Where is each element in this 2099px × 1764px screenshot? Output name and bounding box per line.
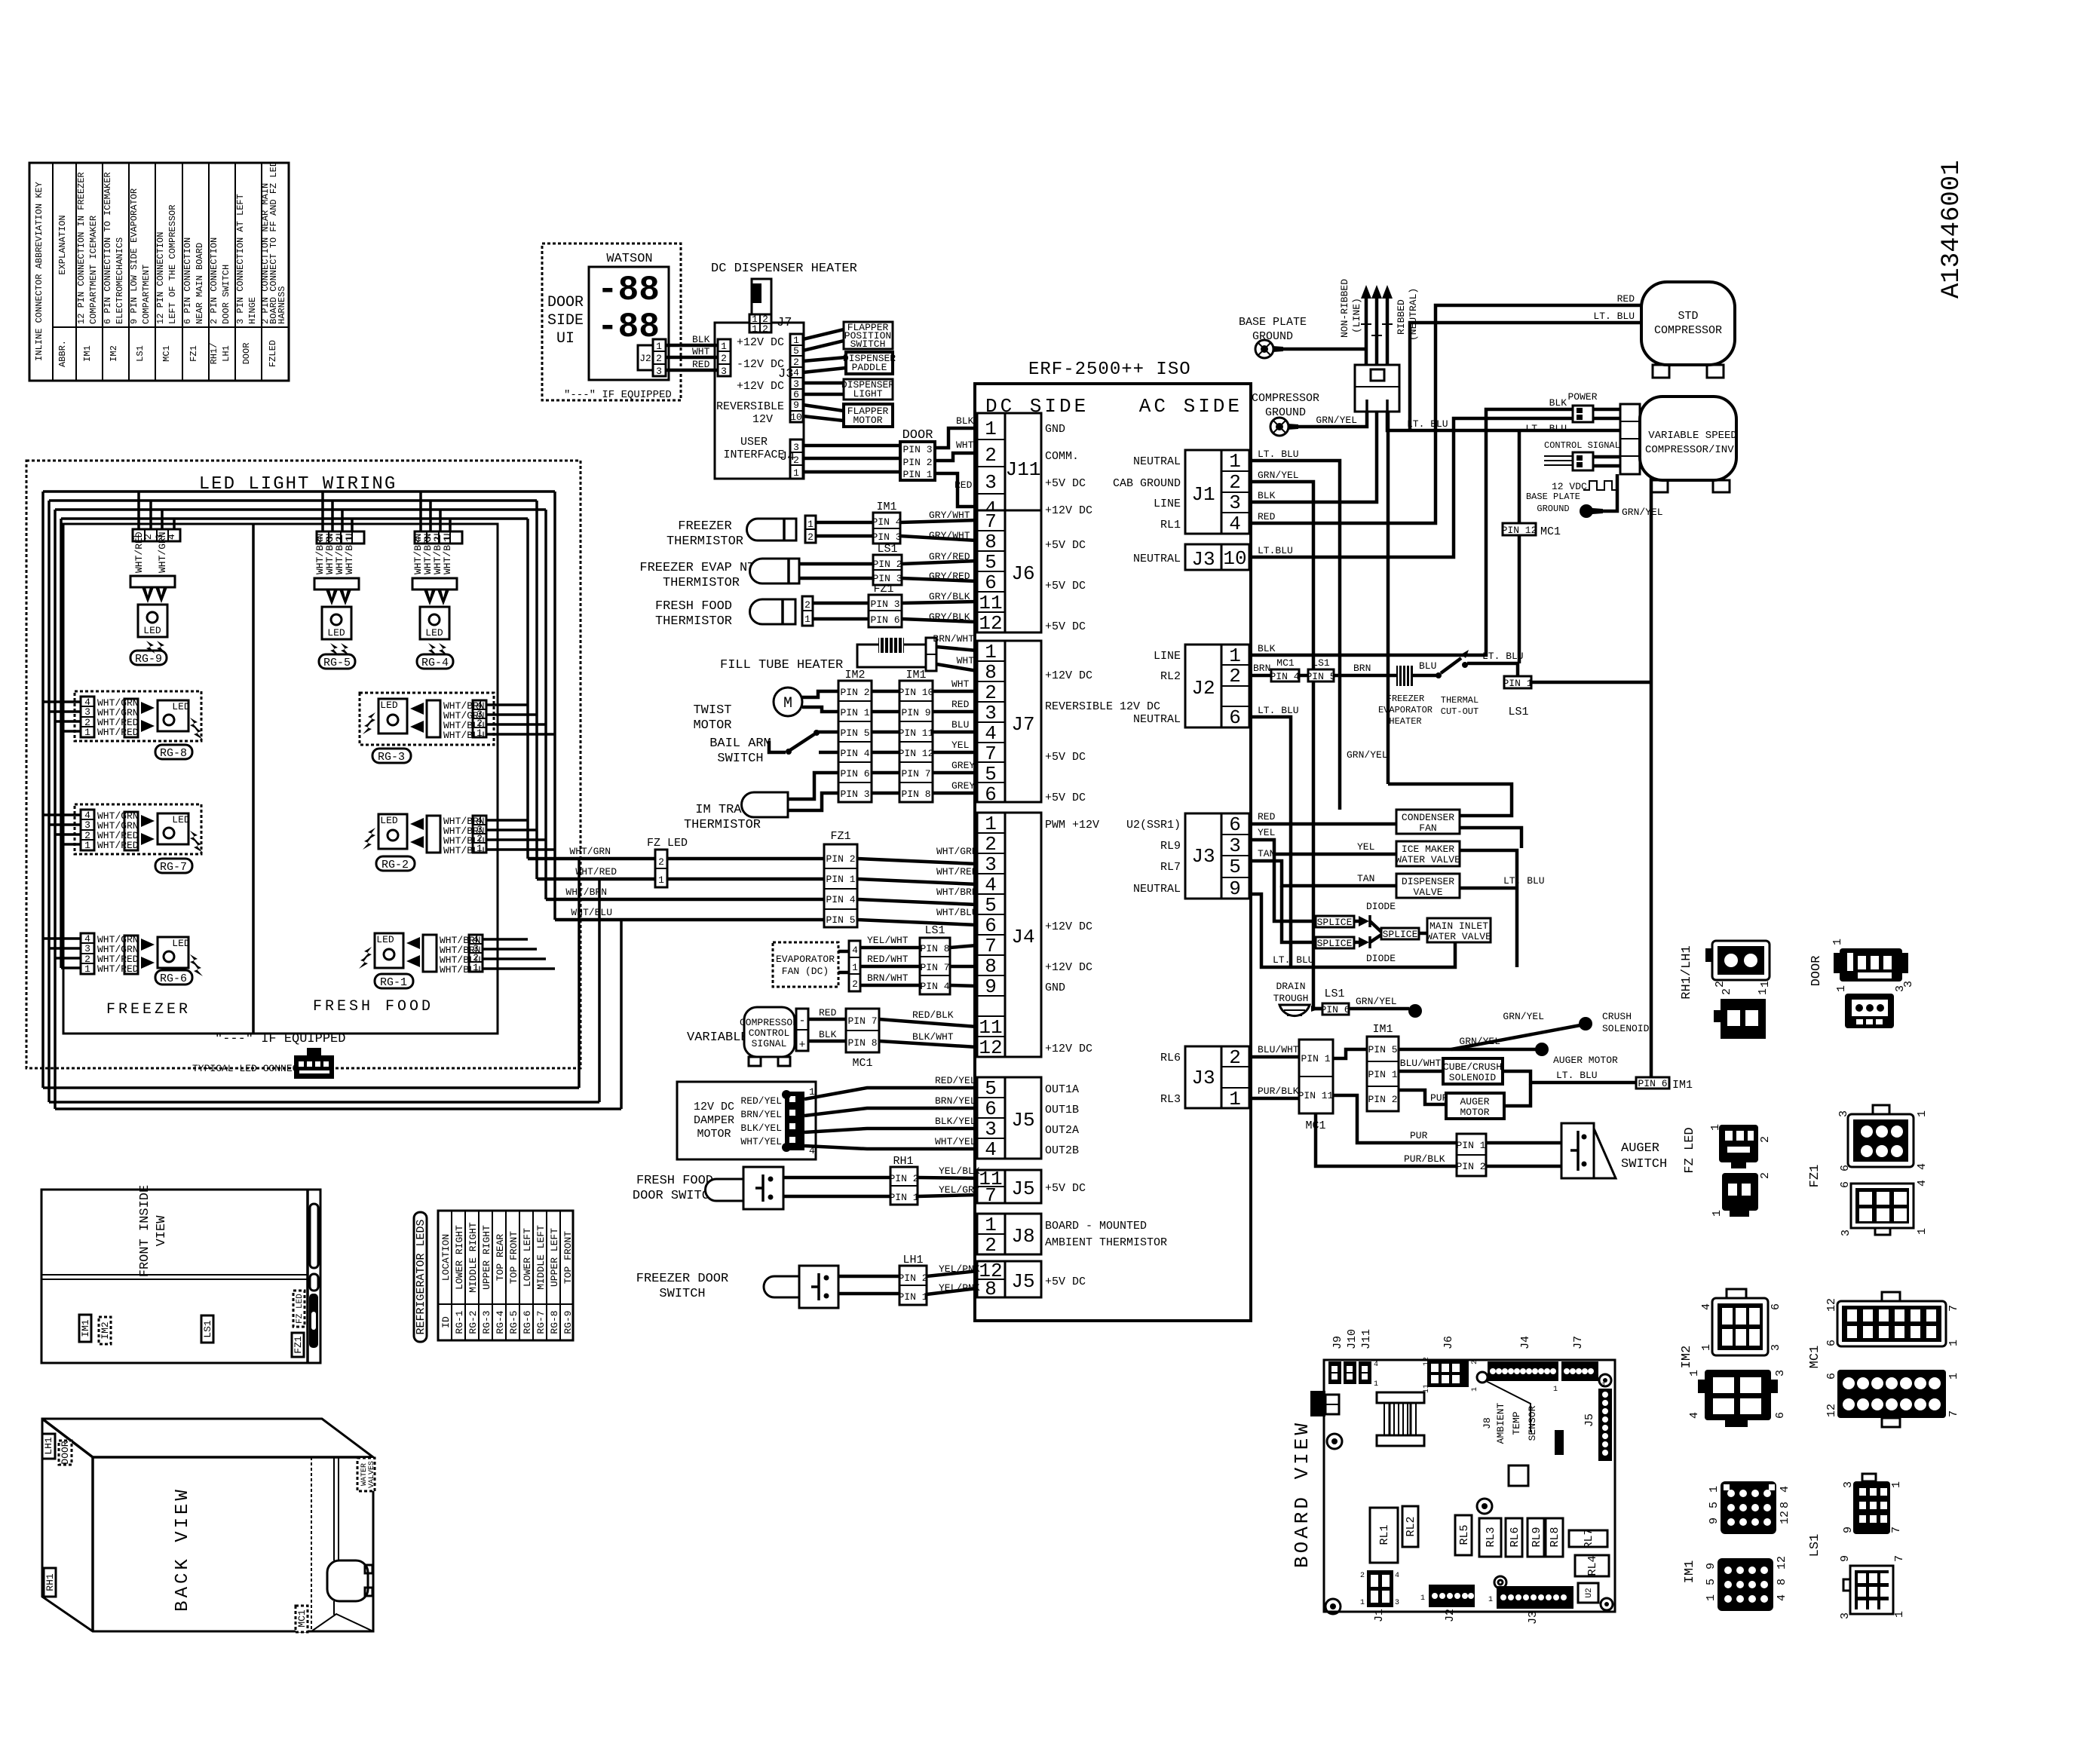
svg-text:PIN 12: PIN 12: [899, 748, 934, 759]
twist motor: [693, 688, 838, 733]
svg-text:1: 1: [1890, 1481, 1903, 1488]
svg-text:3 PIN CONNECTION AT LEFT: 3 PIN CONNECTION AT LEFT: [235, 194, 246, 324]
svg-text:PIN 1: PIN 1: [1503, 678, 1532, 689]
svg-text:J5: J5: [1011, 1178, 1034, 1200]
svg-text:7: 7: [985, 935, 997, 957]
svg-text:RED: RED: [1617, 293, 1635, 305]
svg-text:RED: RED: [692, 359, 710, 370]
svg-text:1: 1: [1488, 1596, 1493, 1604]
svg-text:BLK: BLK: [956, 415, 974, 427]
svg-text:YEL/PNK: YEL/PNK: [939, 1263, 980, 1275]
inline connector IM1 pins 4-3: [872, 501, 901, 544]
svg-text:1: 1: [1711, 1210, 1724, 1217]
svg-text:FZ1: FZ1: [1808, 1165, 1822, 1188]
svg-text:FRONT INSIDE: FRONT INSIDE: [138, 1185, 152, 1277]
svg-text:J6: J6: [1011, 562, 1034, 585]
svg-text:SWITCH: SWITCH: [717, 752, 763, 766]
svg-text:12: 12: [1779, 1511, 1791, 1524]
svg-text:2: 2: [985, 444, 997, 467]
svg-text:4: 4: [985, 1138, 997, 1161]
svg-text:BLK: BLK: [1258, 490, 1276, 501]
svg-text:PIN 2: PIN 2: [889, 1173, 918, 1184]
svg-text:12: 12: [1825, 1298, 1838, 1312]
connector J3 pin 10: [1133, 544, 1249, 571]
svg-text:5: 5: [1708, 1502, 1721, 1508]
svg-text:FREEZER: FREEZER: [106, 1001, 191, 1018]
svg-text:FRESH FOOD: FRESH FOOD: [313, 998, 434, 1015]
svg-text:RG-1: RG-1: [454, 1310, 465, 1334]
svg-text:TROUGH: TROUGH: [1273, 993, 1309, 1004]
connector view FZ1: [1808, 1105, 1929, 1236]
svg-text:POWER: POWER: [1567, 391, 1597, 403]
svg-text:12V: 12V: [752, 413, 773, 426]
svg-text:6: 6: [1839, 1165, 1852, 1171]
svg-text:PIN 6: PIN 6: [840, 768, 869, 779]
svg-text:GND: GND: [1045, 982, 1065, 994]
svg-text:J2: J2: [1191, 677, 1215, 700]
svg-text:BLK: BLK: [1549, 397, 1567, 409]
wires damper motor to J5: [804, 1075, 977, 1149]
svg-text:PIN 11: PIN 11: [1298, 1090, 1334, 1101]
svg-text:RL9: RL9: [1531, 1527, 1543, 1547]
svg-text:FZ1: FZ1: [830, 830, 850, 843]
connector J2: [638, 339, 666, 377]
svg-text:RED/YEL: RED/YEL: [935, 1075, 976, 1086]
svg-text:IM2: IM2: [109, 345, 119, 362]
svg-text:PIN 5: PIN 5: [826, 914, 855, 926]
LED inner box: [63, 524, 498, 1034]
svg-text:PWM +12V: PWM +12V: [1045, 819, 1099, 831]
svg-text:WHT/GRN: WHT/GRN: [569, 846, 611, 857]
svg-text:12 PIN CONNECTION IN FREEZER: 12 PIN CONNECTION IN FREEZER: [76, 172, 87, 324]
auger motor terminal: [1399, 1036, 1618, 1066]
svg-text:6: 6: [985, 571, 997, 594]
svg-text:2: 2: [985, 1234, 997, 1257]
svg-text:1: 1: [1947, 1340, 1960, 1346]
svg-text:MOTOR: MOTOR: [693, 718, 731, 733]
svg-text:LT. BLU: LT. BLU: [1273, 954, 1314, 966]
LED module RG-9: [130, 492, 180, 666]
svg-text:+: +: [798, 1039, 805, 1052]
svg-text:RG-3: RG-3: [481, 1310, 492, 1334]
svg-text:RIBBED: RIBBED: [1396, 299, 1407, 335]
wire RL1 red to std compressor: [1249, 293, 1641, 523]
svg-text:2: 2: [1759, 1172, 1772, 1179]
svg-text:3: 3: [793, 378, 799, 390]
svg-text:VIEW: VIEW: [155, 1215, 169, 1247]
base plate ground upper: [1239, 316, 1366, 358]
flapper position switch: [844, 322, 893, 350]
LED module RG-6: [43, 933, 203, 985]
svg-text:2: 2: [1229, 471, 1241, 494]
svg-text:NEUTRAL: NEUTRAL: [1133, 883, 1181, 896]
freezer evap ntc thermistor: [639, 559, 873, 590]
connector J3 relays lower: [1160, 1046, 1249, 1110]
svg-text:CUBE/CRUSH: CUBE/CRUSH: [1443, 1061, 1502, 1073]
svg-text:6: 6: [793, 389, 799, 400]
svg-text:7: 7: [985, 1184, 997, 1207]
svg-text:5: 5: [985, 1077, 997, 1100]
svg-text:PIN 7: PIN 7: [847, 1015, 877, 1027]
svg-text:BRN/YEL: BRN/YEL: [740, 1109, 782, 1120]
svg-text:VARIABLE: VARIABLE: [687, 1031, 749, 1045]
svg-text:BRN/WHT: BRN/WHT: [933, 633, 974, 645]
svg-text:4: 4: [985, 874, 997, 896]
svg-text:PIN 3: PIN 3: [840, 789, 869, 800]
svg-text:12: 12: [1825, 1404, 1838, 1417]
svg-text:MC1: MC1: [1540, 525, 1561, 538]
wire J2 line blk to power: [1249, 397, 1573, 655]
svg-text:6: 6: [1229, 813, 1241, 836]
LED harness bus wires: [43, 492, 621, 1109]
svg-text:LT. BLU: LT. BLU: [1525, 423, 1567, 434]
svg-text:10: 10: [790, 412, 802, 423]
12 VDC square wave: [1552, 481, 1618, 492]
wires LH1 to J5: [927, 1263, 980, 1294]
svg-text:OUT2B: OUT2B: [1045, 1144, 1079, 1157]
svg-text:DC DISPENSER HEATER: DC DISPENSER HEATER: [711, 262, 857, 276]
svg-text:+12V DC: +12V DC: [1045, 504, 1092, 517]
svg-text:LT. BLU: LT. BLU: [1482, 651, 1524, 662]
svg-text:5: 5: [985, 894, 997, 917]
svg-text:PUR/BLK: PUR/BLK: [1258, 1086, 1299, 1097]
svg-text:COMM.: COMM.: [1045, 450, 1079, 463]
svg-text:3: 3: [1229, 492, 1241, 514]
svg-text:COMPARTMENT ICEMAKER: COMPARTMENT ICEMAKER: [88, 216, 99, 324]
svg-text:PIN 10: PIN 10: [899, 687, 934, 698]
svg-text:PIN 6: PIN 6: [1320, 1004, 1350, 1015]
svg-text:J8: J8: [1482, 1417, 1493, 1429]
wires evap fan to J4: [860, 935, 977, 986]
svg-text:WHT/RED: WHT/RED: [97, 840, 139, 851]
svg-text:RG-9: RG-9: [135, 653, 162, 666]
splice and diodes to main inlet valve: [1274, 854, 1491, 964]
svg-text:WHT/RED: WHT/RED: [575, 866, 617, 877]
svg-text:J3: J3: [1191, 845, 1215, 868]
front inside view: [41, 1185, 320, 1363]
svg-text:9: 9: [1708, 1517, 1721, 1524]
board view relay RL6: [1506, 1518, 1522, 1557]
svg-text:BRN: BRN: [1353, 663, 1371, 674]
svg-text:HARNESS: HARNESS: [277, 286, 287, 324]
svg-text:MOTOR: MOTOR: [1460, 1107, 1489, 1118]
auger motor box: [1399, 1084, 1531, 1119]
svg-text:AUGER: AUGER: [1460, 1096, 1489, 1107]
cube/crush solenoid: [1399, 1058, 1636, 1084]
svg-text:OUT2A: OUT2A: [1045, 1124, 1079, 1137]
svg-text:RL6: RL6: [1160, 1052, 1181, 1064]
svg-text:PIN 9: PIN 9: [901, 707, 930, 718]
wire J2 neutral: [1249, 705, 1299, 967]
svg-text:GRN/YEL: GRN/YEL: [1459, 1036, 1500, 1047]
board view connectors J9 J10 J11: [1328, 1329, 1378, 1389]
svg-text:1: 1: [807, 519, 814, 530]
svg-text:LOCATION: LOCATION: [440, 1234, 452, 1281]
svg-text:1: 1: [793, 335, 799, 346]
svg-text:PIN 8: PIN 8: [920, 943, 949, 954]
connector J5 outputs: [977, 1077, 1079, 1161]
svg-text:RED: RED: [1258, 511, 1276, 522]
svg-text:6: 6: [985, 914, 997, 937]
svg-text:RED/YEL: RED/YEL: [740, 1095, 782, 1107]
svg-text:REFRIGERATOR LEDS: REFRIGERATOR LEDS: [415, 1219, 427, 1334]
svg-text:SWITCH: SWITCH: [659, 1287, 705, 1301]
svg-text:FZ1: FZ1: [873, 583, 893, 596]
power cord: [1339, 279, 1419, 365]
board view relay RL5: [1455, 1515, 1472, 1555]
inline connector LS1 pins 2-3: [872, 543, 902, 585]
board view relay RL8: [1546, 1518, 1563, 1557]
svg-text:J7: J7: [777, 316, 792, 330]
svg-text:J3: J3: [1527, 1611, 1540, 1625]
svg-text:2: 2: [985, 681, 997, 704]
svg-text:PIN 5: PIN 5: [1368, 1044, 1397, 1055]
svg-text:GRN/YEL: GRN/YEL: [1258, 470, 1299, 481]
svg-text:UI: UI: [556, 330, 575, 348]
svg-text:GRY/WHT: GRY/WHT: [929, 510, 970, 521]
svg-text:2: 2: [721, 353, 727, 364]
svg-text:MC1: MC1: [1276, 657, 1295, 669]
svg-text:BASE PLATE: BASE PLATE: [1526, 492, 1580, 502]
board view connector J1: [1360, 1570, 1399, 1622]
svg-text:PIN 4: PIN 4: [826, 894, 855, 905]
svg-text:6: 6: [1770, 1303, 1782, 1310]
svg-text:SOLENOID: SOLENOID: [1602, 1023, 1650, 1034]
svg-text:GRN/YEL: GRN/YEL: [1503, 1011, 1544, 1022]
svg-text:RH1/: RH1/: [209, 343, 219, 365]
svg-text:PIN 5: PIN 5: [840, 727, 869, 739]
svg-text:1: 1: [1916, 1228, 1929, 1235]
svg-text:PIN 8: PIN 8: [847, 1037, 877, 1049]
svg-text:IM1: IM1: [1372, 1023, 1393, 1036]
svg-text:1: 1: [985, 418, 997, 440]
svg-text:ICE MAKER: ICE MAKER: [1402, 844, 1454, 855]
svg-text:PIN 6: PIN 6: [870, 614, 899, 626]
svg-text:WHT/YEL: WHT/YEL: [935, 1136, 976, 1147]
svg-text:TWIST: TWIST: [693, 703, 731, 718]
svg-text:LEFT OF THE COMPRESSOR: LEFT OF THE COMPRESSOR: [167, 205, 178, 324]
svg-text:DOOR: DOOR: [547, 294, 584, 311]
svg-text:1: 1: [1835, 985, 1848, 992]
svg-text:YEL/GRY: YEL/GRY: [939, 1184, 980, 1196]
svg-text:DIODE: DIODE: [1366, 953, 1396, 964]
svg-text:SENSOR: SENSOR: [1527, 1405, 1538, 1441]
wire blk plug to J1 line: [1249, 412, 1377, 502]
svg-text:REVERSIBLE 12V DC: REVERSIBLE 12V DC: [1045, 700, 1160, 713]
svg-text:J6: J6: [1442, 1336, 1455, 1349]
svg-text:SPLICE: SPLICE: [1317, 917, 1353, 928]
svg-text:CONDENSER: CONDENSER: [1402, 812, 1454, 823]
std compressor: [1641, 282, 1735, 378]
inline connector LH1: [898, 1254, 927, 1305]
svg-text:1: 1: [1916, 1110, 1929, 1117]
svg-text:RED: RED: [955, 479, 973, 491]
svg-text:1: 1: [1471, 1387, 1479, 1392]
svg-text:IM1: IM1: [1672, 1079, 1693, 1092]
svg-text:MIDDLE LEFT: MIDDLE LEFT: [535, 1225, 547, 1290]
wire neutral J1 pin1: [1249, 449, 1388, 810]
inline connector IM1 pins 5-1-2: [1367, 1023, 1399, 1111]
svg-text:+12V DC: +12V DC: [737, 380, 784, 393]
svg-text:AC SIDE: AC SIDE: [1139, 395, 1243, 418]
svg-text:GREY: GREY: [951, 780, 975, 792]
svg-text:WHT/BLU: WHT/BLU: [440, 964, 481, 975]
svg-text:LIGHT: LIGHT: [853, 388, 882, 400]
svg-text:+5V DC: +5V DC: [1045, 539, 1086, 552]
svg-text:6: 6: [985, 783, 997, 806]
variable speed compressor/inv: [1620, 397, 1740, 492]
connector J6: [977, 510, 1086, 635]
svg-text:THERMISTOR: THERMISTOR: [666, 534, 743, 549]
svg-text:8: 8: [985, 1278, 997, 1300]
svg-text:EVAPORATOR: EVAPORATOR: [776, 954, 835, 965]
LED LIGHT WIRING outer dashed box: [26, 461, 581, 1068]
svg-text:YEL/BLK: YEL/BLK: [939, 1165, 980, 1177]
dispenser valve: [1249, 848, 1517, 898]
svg-text:YEL: YEL: [1258, 827, 1275, 838]
svg-text:2: 2: [658, 856, 664, 868]
svg-text:PIN 2: PIN 2: [872, 559, 902, 570]
svg-text:GRN/YEL: GRN/YEL: [1316, 415, 1357, 426]
svg-text:NEUTRAL: NEUTRAL: [1133, 455, 1181, 468]
12V DC damper motor: [677, 1082, 816, 1159]
svg-text:WHT/BRN: WHT/BRN: [936, 887, 978, 898]
board view relay RL1: [1370, 1508, 1398, 1563]
svg-text:2: 2: [985, 833, 997, 856]
svg-text:RL4: RL4: [1586, 1555, 1599, 1576]
fresh food thermistor: [655, 596, 869, 629]
inline connector PIN 6 IM1: [1636, 1077, 1693, 1092]
svg-text:GREY: GREY: [951, 760, 975, 771]
svg-text:6: 6: [1825, 1373, 1838, 1380]
svg-text:1: 1: [1229, 450, 1241, 473]
svg-text:J11: J11: [1360, 1329, 1373, 1349]
svg-text:MIDDLE RIGHT: MIDDLE RIGHT: [467, 1222, 479, 1293]
svg-text:3: 3: [1840, 1230, 1852, 1236]
svg-text:FZ1: FZ1: [188, 345, 199, 362]
svg-text:U2: U2: [1585, 1588, 1594, 1597]
svg-text:LH1: LH1: [221, 345, 231, 362]
inline connector MC1 pins 1-11: [1298, 1040, 1334, 1132]
svg-text:RL1: RL1: [1378, 1524, 1391, 1545]
svg-text:HEATER: HEATER: [1389, 716, 1421, 727]
svg-text:12: 12: [979, 612, 1002, 635]
svg-text:J11: J11: [1006, 458, 1041, 481]
FZ LED inline connector: [647, 837, 688, 887]
svg-text:LS1: LS1: [1324, 988, 1344, 1000]
svg-text:RG-1: RG-1: [380, 976, 407, 989]
svg-text:GRN/YEL: GRN/YEL: [1347, 749, 1388, 761]
svg-text:BACK VIEW: BACK VIEW: [173, 1487, 193, 1612]
svg-text:IM1: IM1: [876, 501, 896, 513]
svg-text:7: 7: [1947, 1305, 1960, 1312]
svg-text:OUT1B: OUT1B: [1045, 1104, 1079, 1116]
svg-text:WHT/YEL: WHT/YEL: [740, 1136, 782, 1147]
svg-text:CRUSH: CRUSH: [1602, 1011, 1632, 1022]
svg-text:DOOR: DOOR: [60, 1441, 71, 1464]
svg-text:WHT: WHT: [692, 346, 710, 357]
svg-text:RG-2: RG-2: [467, 1310, 479, 1334]
svg-text:RL7: RL7: [1160, 861, 1181, 874]
svg-text:LS1: LS1: [924, 924, 945, 937]
svg-text:1: 1: [793, 467, 799, 479]
board view connector J2: [1420, 1585, 1475, 1622]
svg-text:BASE PLATE: BASE PLATE: [1239, 316, 1307, 329]
svg-text:UPPER LEFT: UPPER LEFT: [549, 1228, 560, 1287]
svg-text:+5V DC: +5V DC: [1045, 1182, 1086, 1195]
svg-text:BRN: BRN: [1253, 663, 1270, 674]
svg-text:BLK/YEL: BLK/YEL: [935, 1116, 976, 1127]
svg-text:WHT: WHT: [957, 655, 975, 666]
svg-text:GROUND: GROUND: [1265, 406, 1306, 419]
svg-text:BLK/WHT: BLK/WHT: [912, 1031, 954, 1043]
svg-text:3: 3: [1229, 835, 1241, 857]
svg-text:PIN 3: PIN 3: [872, 531, 901, 543]
svg-text:WHT/BLU: WHT/BLU: [571, 907, 612, 918]
svg-text:RED: RED: [819, 1007, 837, 1018]
svg-text:9: 9: [985, 975, 997, 998]
svg-text:YEL: YEL: [951, 740, 969, 751]
svg-text:1: 1: [658, 874, 664, 886]
svg-text:COMPARTMENT: COMPARTMENT: [141, 265, 152, 324]
svg-text:RL3: RL3: [1485, 1527, 1497, 1547]
svg-text:BOARD VIEW: BOARD VIEW: [1291, 1420, 1313, 1568]
svg-text:CUT-OUT: CUT-OUT: [1441, 706, 1478, 717]
svg-text:+5V DC: +5V DC: [1045, 477, 1086, 490]
wires FZ1 to J6: [902, 591, 977, 623]
svg-text:1: 1: [1688, 1370, 1701, 1377]
svg-text:WHT/BLU: WHT/BLU: [936, 907, 978, 918]
inline connector PIN 12 MC1: [1502, 430, 1561, 663]
svg-text:CONTROL: CONTROL: [749, 1027, 790, 1039]
svg-text:4: 4: [1395, 1572, 1399, 1580]
svg-text:-: -: [798, 1015, 805, 1027]
svg-text:LINE: LINE: [1154, 650, 1181, 663]
svg-text:11: 11: [979, 592, 1002, 614]
svg-text:RED: RED: [1258, 811, 1276, 822]
svg-text:PIN 7: PIN 7: [901, 768, 930, 779]
svg-text:PIN 1: PIN 1: [902, 469, 932, 480]
svg-text:PIN 2: PIN 2: [1368, 1094, 1397, 1105]
svg-text:RED: RED: [951, 699, 970, 710]
svg-text:GRN/YEL: GRN/YEL: [1356, 996, 1397, 1007]
svg-text:1: 1: [1700, 1344, 1713, 1351]
base plate ground lower: [1526, 474, 1663, 518]
dispenser light: [841, 379, 894, 400]
svg-text:11: 11: [979, 1016, 1002, 1039]
svg-text:RH1: RH1: [893, 1155, 913, 1168]
svg-text:MAIN INLET: MAIN INLET: [1429, 920, 1488, 932]
svg-text:FAN: FAN: [1419, 822, 1436, 834]
wires led harness to FZ1 and J4: [528, 846, 978, 925]
svg-text:RG-6: RG-6: [160, 972, 187, 985]
board view connector J3: [1488, 1586, 1573, 1625]
svg-text:RG-2: RG-2: [381, 859, 409, 871]
svg-text:+12V DC: +12V DC: [1045, 920, 1092, 933]
svg-text:1: 1: [656, 341, 662, 352]
svg-text:1: 1: [852, 962, 858, 973]
wire lt.blu bus from plug: [1387, 412, 1651, 1077]
svg-text:2: 2: [1229, 665, 1241, 688]
svg-text:LS1: LS1: [877, 543, 897, 556]
inline connector FZ1 pins 3-6: [869, 583, 902, 627]
svg-text:2: 2: [1721, 988, 1733, 995]
svg-text:TOP REAR: TOP REAR: [495, 1234, 506, 1282]
svg-text:PIN 7: PIN 7: [920, 962, 949, 973]
connector view DOOR: [1809, 939, 1915, 1028]
svg-text:RL7: RL7: [1583, 1528, 1595, 1548]
svg-text:LT. BLU: LT. BLU: [1258, 449, 1299, 460]
